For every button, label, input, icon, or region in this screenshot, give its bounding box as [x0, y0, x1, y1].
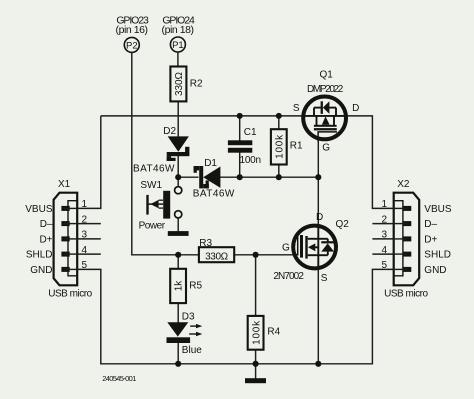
svg-text:D2: D2	[163, 126, 176, 137]
svg-text:(pin 16): (pin 16)	[116, 24, 149, 36]
svg-text:330Ω: 330Ω	[174, 71, 185, 96]
wire node A to D1 cathode	[178, 176, 198, 178]
svg-text:D1: D1	[204, 158, 217, 169]
wire X2 pin2 stub	[372, 223, 393, 225]
svg-text:5: 5	[82, 260, 88, 271]
svg-text:GND: GND	[424, 265, 446, 276]
wire Q1 drain to X2 pin1	[343, 116, 394, 208]
wire X1 pin2 stub	[77, 223, 101, 225]
wire Q1 gate to Q2 drain	[317, 141, 319, 227]
svg-text:D+: D+	[424, 234, 437, 245]
svg-text:100k: 100k	[251, 320, 262, 345]
svg-text:4: 4	[382, 245, 388, 256]
wire left rail to X1 pin1	[77, 116, 101, 208]
wire X2 pin4 stub	[372, 253, 393, 255]
svg-text:330Ω: 330Ω	[205, 251, 229, 262]
svg-text:100n: 100n	[240, 155, 262, 166]
wire P1 to R2	[177, 52, 179, 66]
svg-text:GND: GND	[30, 265, 52, 276]
svg-text:100k: 100k	[274, 134, 285, 159]
diode D1 (BAT46W)	[194, 166, 221, 188]
svg-text:R1: R1	[290, 141, 303, 152]
junction R4 top control net	[253, 252, 259, 258]
svg-text:Blue: Blue	[182, 345, 202, 356]
junction R4 bottom bus	[253, 361, 259, 367]
junction R5 top control net	[175, 252, 181, 258]
diode D2 (BAT46W)	[167, 136, 190, 161]
LED D3 Blue	[167, 322, 203, 343]
svg-text:D: D	[316, 212, 323, 223]
svg-text:D–: D–	[40, 219, 53, 230]
svg-text:G: G	[282, 243, 290, 254]
svg-text:R3: R3	[199, 238, 212, 249]
junction R1 bottom	[276, 174, 282, 180]
svg-text:3: 3	[82, 230, 88, 241]
wire SW1 bottom to ground bar	[177, 218, 179, 231]
junction Q2 source bus	[315, 361, 321, 367]
svg-text:R5: R5	[189, 281, 202, 292]
svg-text:D: D	[352, 103, 359, 114]
wire D3 to bottom bus	[177, 343, 179, 364]
svg-text:VBUS: VBUS	[25, 204, 53, 215]
ground symbol main	[245, 378, 266, 383]
wire X2 pin3 stub	[372, 238, 393, 240]
resistor R3	[199, 247, 234, 262]
svg-text:SHLD: SHLD	[424, 250, 451, 261]
junction D3 bottom bus	[175, 361, 181, 367]
wire R1 bottom	[278, 165, 280, 178]
transistor Q2 2N7002 N-MOSFET	[293, 226, 336, 269]
wire X1 pin4 stub	[77, 253, 101, 255]
svg-text:USB micro: USB micro	[48, 288, 92, 299]
node P1 GPIO24	[170, 37, 185, 52]
svg-text:Q2: Q2	[336, 219, 350, 230]
connector X2 USB micro	[393, 193, 419, 286]
svg-text:S: S	[321, 273, 328, 284]
svg-text:D3: D3	[182, 312, 195, 323]
wire control net R3 right to Q2 gate	[234, 254, 294, 256]
resistor R2	[170, 67, 186, 102]
resistor R4	[248, 316, 264, 350]
svg-text:S: S	[293, 103, 300, 114]
svg-text:240545-001: 240545-001	[102, 374, 136, 383]
svg-text:C1: C1	[244, 127, 257, 138]
wire R4 top	[255, 255, 257, 316]
wire X1 pin5 to bottom bus	[77, 269, 394, 363]
wire C1 top	[239, 116, 241, 141]
svg-text:Q1: Q1	[320, 69, 334, 80]
svg-text:VBUS: VBUS	[424, 204, 452, 215]
svg-text:2N7002: 2N7002	[273, 271, 304, 282]
op: transistor Q1 DMP2022 P-MOSFET	[303, 97, 346, 142]
svg-text:D–: D–	[424, 219, 437, 230]
svg-text:R4: R4	[267, 326, 280, 337]
wire Q2 source to bottom bus	[317, 268, 319, 364]
wire R5 to D3	[177, 303, 179, 322]
svg-text:BAT46W: BAT46W	[193, 189, 235, 200]
svg-text:3: 3	[382, 230, 388, 241]
svg-text:G: G	[322, 142, 330, 153]
wire P2 GPIO23 drop to control net	[132, 52, 199, 254]
ground bar below SW1	[168, 231, 189, 236]
connector X1 USB micro	[54, 193, 78, 286]
capacitor C1	[228, 140, 252, 152]
wire R1 top	[278, 116, 280, 129]
svg-text:DMP2022: DMP2022	[307, 84, 344, 95]
wire C1 bottom	[239, 153, 241, 178]
node P2 GPIO23	[124, 37, 139, 52]
svg-text:USB micro: USB micro	[384, 288, 428, 299]
svg-text:BAT46W: BAT46W	[133, 163, 175, 174]
svg-text:1: 1	[382, 199, 388, 210]
wire D2 to SW1 top	[177, 155, 179, 187]
svg-text:SW1: SW1	[140, 180, 162, 191]
wire R5 top	[177, 255, 179, 269]
junction R1 top	[276, 113, 282, 119]
svg-text:1: 1	[82, 199, 88, 210]
wire R2 to D2	[177, 101, 179, 136]
wire D1 anode to Q1 gate drop	[220, 176, 318, 178]
svg-text:X2: X2	[397, 179, 410, 190]
svg-text:R2: R2	[190, 78, 203, 89]
svg-text:4: 4	[82, 245, 88, 256]
resistor R5	[170, 269, 186, 303]
svg-text:SHLD: SHLD	[26, 250, 53, 261]
junction node A below D2	[175, 174, 181, 180]
wire R4 bottom to ground	[255, 350, 257, 379]
junction C1 top	[237, 113, 243, 119]
junction gate net at Q1/Q2	[315, 174, 321, 180]
junction C1 bottom	[237, 174, 243, 180]
svg-text:(pin 18): (pin 18)	[162, 24, 195, 36]
svg-text:D+: D+	[39, 234, 52, 245]
svg-text:2: 2	[82, 214, 88, 225]
svg-text:P1: P1	[172, 40, 184, 51]
svg-text:Power: Power	[139, 220, 166, 231]
wire top bus VBUS	[101, 115, 306, 117]
svg-text:5: 5	[382, 260, 388, 271]
svg-text:P2: P2	[126, 40, 138, 51]
svg-text:1k: 1k	[174, 280, 185, 292]
resistor R1	[271, 129, 287, 164]
switch SW1	[148, 187, 182, 219]
svg-text:X1: X1	[58, 179, 71, 190]
svg-text:2: 2	[382, 214, 388, 225]
wire X1 pin3 stub	[77, 238, 101, 240]
